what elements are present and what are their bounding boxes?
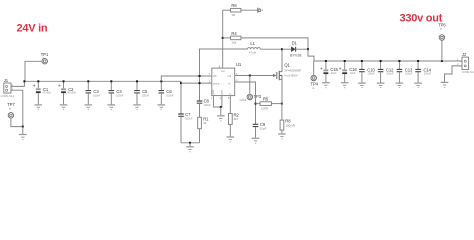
node rail left <box>23 80 25 82</box>
capacitor C14 <box>414 60 431 88</box>
wire U1 isense pin <box>235 82 256 124</box>
svg-text:5: 5 <box>228 96 230 100</box>
capacitor C10 <box>358 60 375 88</box>
op IC U1 <box>209 62 242 100</box>
svg-text:100nF: 100nF <box>116 93 124 97</box>
wire 24V input rail <box>24 80 181 82</box>
ground (input) <box>19 127 27 141</box>
wire top feed vertical <box>222 10 224 68</box>
test point TP7 <box>7 102 15 118</box>
wire TP3 drop <box>249 76 251 95</box>
svg-text:22pF: 22pF <box>260 127 267 131</box>
svg-text:100mR: 100mR <box>285 124 296 128</box>
svg-text:Q1: Q1 <box>284 62 290 67</box>
svg-text:100nF: 100nF <box>405 71 413 75</box>
svg-text:BYV38: BYV38 <box>290 54 301 58</box>
wire VREF vertical (C8/R1 chain top to L1) <box>200 49 248 101</box>
svg-text:24V in: 24V in <box>17 23 48 35</box>
capacitor C1 <box>33 80 52 110</box>
terminal pin (R6 output) <box>258 8 263 13</box>
svg-text:N-ch 800V: N-ch 800V <box>284 73 297 77</box>
svg-text:gnd: gnd <box>220 90 224 95</box>
capacitor C2 <box>58 80 77 110</box>
capacitor C12 <box>377 60 394 88</box>
svg-text:47u35v: 47u35v <box>42 91 51 95</box>
resistor R8 <box>280 104 296 134</box>
svg-text:TP7: TP7 <box>7 102 15 107</box>
node bottom join <box>189 142 191 144</box>
svg-text:4: 4 <box>220 96 222 100</box>
svg-text:R6: R6 <box>231 3 237 8</box>
ground (R8) <box>278 134 286 140</box>
svg-text:10k: 10k <box>231 41 236 45</box>
capacitor C16 <box>339 60 357 88</box>
svg-text:out: out <box>228 74 232 78</box>
ground (R2) <box>227 137 235 143</box>
svg-text:J2: J2 <box>462 52 467 57</box>
capacitor C8 <box>197 99 212 118</box>
svg-text:100nF: 100nF <box>368 71 376 75</box>
wire C7 node to U1 pin <box>181 82 212 84</box>
svg-text:1k: 1k <box>203 121 207 125</box>
svg-text:GATE: GATE <box>240 98 247 102</box>
wire U1 gate output to Q1 <box>235 75 273 77</box>
node R4 tap <box>222 37 224 39</box>
inductor L1 <box>247 41 282 55</box>
node TP6 tap <box>441 60 443 62</box>
svg-text:1R: 1R <box>231 13 236 17</box>
svg-text:XF4420N80P: XF4420N80P <box>284 68 301 72</box>
wire J1 pin2 down <box>14 90 23 126</box>
node source/R5/R8 <box>281 103 283 105</box>
wire J1 pin1 to rail <box>14 81 25 86</box>
wire TP6 drop <box>441 40 443 61</box>
svg-text:io: io <box>9 106 12 110</box>
capacitor C13 <box>396 60 413 88</box>
node on pin wire lower <box>199 82 201 84</box>
wire TP4 drop <box>313 61 315 76</box>
connector J1 <box>1 78 15 98</box>
svg-text:C8: C8 <box>204 99 210 104</box>
resistor R6 <box>223 3 258 17</box>
svg-text:100nF: 100nF <box>204 103 212 107</box>
svg-text:vfb: vfb <box>213 74 217 78</box>
node C7 branch <box>180 82 182 84</box>
connector J2 <box>457 52 474 74</box>
svg-text:U1: U1 <box>236 62 242 67</box>
capacitor C3 <box>85 80 101 110</box>
svg-text:100R: 100R <box>261 106 269 110</box>
resistor R1 <box>198 117 209 143</box>
svg-text:330v out: 330v out <box>400 13 443 25</box>
svg-text:100nF: 100nF <box>166 93 174 97</box>
test point TP1 <box>41 52 49 64</box>
svg-text:C6: C6 <box>166 89 172 94</box>
resistor R4 <box>223 31 241 45</box>
wire rail riser to U1 pin (VCC) <box>161 76 212 81</box>
svg-text:10uF: 10uF <box>350 71 356 75</box>
node on pin wire upper <box>199 75 201 77</box>
wire output step to rail <box>308 49 314 61</box>
svg-text:4k7: 4k7 <box>234 117 239 121</box>
diode D1 <box>282 41 308 58</box>
svg-text:100nF: 100nF <box>142 93 150 97</box>
capacitor C5 <box>133 80 149 110</box>
svg-text:47uH: 47uH <box>249 51 256 55</box>
capacitor C9 <box>253 122 267 138</box>
svg-text:R4: R4 <box>231 31 237 36</box>
svg-text:gnd: gnd <box>211 90 215 95</box>
wire J2 pin2 to ground <box>445 66 460 82</box>
svg-text:100nF: 100nF <box>424 71 432 75</box>
svg-text:C3: C3 <box>93 89 99 94</box>
capacitor C7 <box>178 81 193 143</box>
node TP3 tap <box>249 75 251 77</box>
svg-text:TP3: TP3 <box>254 94 262 99</box>
wire TP7 to ground node <box>11 118 23 127</box>
ground (J2) <box>441 82 449 88</box>
resistor R5 <box>256 97 282 111</box>
svg-text:100nF: 100nF <box>93 93 101 97</box>
svg-text:C5: C5 <box>142 89 148 94</box>
svg-text:L1: L1 <box>250 41 255 46</box>
wire TP1 to rail <box>25 61 42 81</box>
node U1 ground pins <box>220 106 222 108</box>
capacitor C15 <box>320 60 338 88</box>
wire R4 to output node <box>241 38 308 49</box>
node switch (L1/D1/Q1 drain) <box>281 48 283 50</box>
resistor R2 <box>229 96 240 137</box>
svg-text:J1: J1 <box>4 78 9 83</box>
svg-text:10uF: 10uF <box>331 71 337 75</box>
svg-text:100nF: 100nF <box>185 116 193 120</box>
test point TP6 <box>438 22 446 40</box>
svg-text:CONN-SIL2: CONN-SIL2 <box>462 70 474 74</box>
node D1 cathode / R4 <box>307 48 309 50</box>
svg-text:1: 1 <box>211 96 213 100</box>
capacitor C6 <box>158 80 174 110</box>
node junction TP7/J1 pin2 <box>22 126 24 128</box>
ground (C9) <box>252 138 260 144</box>
svg-text:C7: C7 <box>185 112 191 117</box>
svg-text:100nF: 100nF <box>386 71 394 75</box>
wire 330V output rail <box>314 60 462 62</box>
ground (U1) <box>217 107 225 121</box>
node isense/R5 <box>255 103 257 105</box>
test point TP4 <box>311 75 319 90</box>
wire C7/R1 bottom join <box>181 142 200 144</box>
svg-text:comp: comp <box>213 82 220 85</box>
svg-text:C4: C4 <box>116 89 122 94</box>
capacitor C4 <box>108 80 124 110</box>
ground (C7/R1) <box>186 143 194 153</box>
svg-text:R5: R5 <box>263 97 269 102</box>
svg-text:CONN-SIL2: CONN-SIL2 <box>1 94 15 98</box>
svg-text:rt: rt <box>228 93 232 95</box>
svg-text:D1: D1 <box>292 41 298 46</box>
transistor Q1 <box>273 49 301 103</box>
wire U1 bottom pins to ground <box>213 96 222 107</box>
test point TP3 <box>240 94 262 102</box>
svg-text:47u35v: 47u35v <box>68 91 77 95</box>
